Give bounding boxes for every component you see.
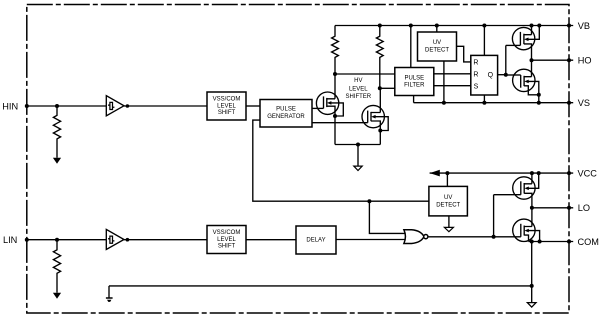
node VB pulse filter drop xyxy=(409,24,413,28)
node VB fet body xyxy=(537,24,541,28)
wire latch Q output xyxy=(498,74,506,76)
svg-text:PULSE: PULSE xyxy=(276,107,296,113)
wire HO rail xyxy=(532,59,574,61)
block pulse generator xyxy=(260,100,312,128)
wire LO rail xyxy=(532,207,573,209)
svg-text:FILTER: FILTER xyxy=(404,82,425,88)
svg-text:LEVEL: LEVEL xyxy=(217,237,236,243)
block delay xyxy=(296,226,336,254)
node LO fet junction xyxy=(530,206,534,210)
wire COM rail xyxy=(529,241,574,243)
wire pulse filter top to VB xyxy=(410,26,412,68)
svg-text:VSS/COM: VSS/COM xyxy=(213,97,241,103)
schmitt buffer LIN xyxy=(106,229,124,249)
node Q2 drain xyxy=(378,86,382,90)
ground chevron uv low xyxy=(444,227,453,231)
wire level shift to delay xyxy=(246,239,296,241)
wire schmitt LIN output to level shift xyxy=(124,239,207,241)
node VS fet source xyxy=(537,101,541,105)
wire VSS substrate run xyxy=(109,285,532,287)
node LIN resistor tap xyxy=(55,238,59,242)
wire uv detect top to VB xyxy=(436,26,438,33)
node VS latch drop xyxy=(482,101,486,105)
transistor Q2 HV level shift right xyxy=(312,88,388,144)
node HIN resistor tap xyxy=(55,104,59,108)
svg-text:SHIFT: SHIFT xyxy=(218,243,236,249)
block UV detect high side xyxy=(418,32,457,61)
svg-text:DETECT: DETECT xyxy=(436,202,460,208)
svg-text:LEVEL: LEVEL xyxy=(349,86,368,92)
wire VB rail xyxy=(335,25,573,27)
wire delay to NOR lower input xyxy=(336,239,406,241)
svg-text:VB: VB xyxy=(578,21,590,31)
gate NOR xyxy=(404,230,428,244)
node schmitt LIN output xyxy=(126,238,130,242)
node Q2 source-body xyxy=(378,129,382,133)
svg-text:GENERATOR: GENERATOR xyxy=(267,114,305,120)
wire VS rail xyxy=(414,102,574,104)
svg-text:UV: UV xyxy=(433,40,441,46)
svg-text:S: S xyxy=(474,83,479,90)
svg-text:HV: HV xyxy=(354,78,362,84)
wire ground stem xyxy=(357,145,359,167)
wire common source of level shifter xyxy=(335,144,380,146)
transistor Q3 high side output upper xyxy=(506,26,540,61)
wire latch bottom to VS xyxy=(483,95,485,103)
node substrate join xyxy=(530,284,534,288)
resistor LIN pulldown xyxy=(53,240,60,293)
svg-text:PULSE: PULSE xyxy=(404,76,424,82)
wire VCC rail xyxy=(430,172,574,174)
wire COM to substrate ground xyxy=(531,242,533,303)
node VB uv detect drop xyxy=(435,24,439,28)
arrow VCC feed xyxy=(430,170,440,177)
node VB latch drop xyxy=(482,24,486,28)
wire pulse generator lower-left port down to LIN-side logic xyxy=(253,120,429,201)
block UV detect low side xyxy=(429,186,468,216)
latch RS block xyxy=(471,55,498,95)
node schmitt HIN output xyxy=(126,104,130,108)
node HO pin xyxy=(567,58,571,62)
ground arrow HIN resistor xyxy=(53,158,61,164)
svg-text:UV: UV xyxy=(444,195,452,201)
wire pulse filter to latch S xyxy=(434,85,471,87)
wire schmitt HIN output to level shift xyxy=(124,105,207,107)
svg-text:VSS/COM: VSS/COM xyxy=(213,230,241,236)
svg-text:SHIFT: SHIFT xyxy=(218,110,236,116)
node VCC pin xyxy=(567,171,571,175)
node VB resistor right xyxy=(378,24,382,28)
block VSS/COM level shift (HIN) xyxy=(207,92,246,120)
svg-text:Q: Q xyxy=(488,72,494,79)
node HO fet junction xyxy=(530,58,534,62)
ground arrow LIN resistor xyxy=(53,293,61,299)
node Q1 source-body xyxy=(333,114,337,118)
wire gate riser Q5 xyxy=(493,195,495,237)
wire VSS ground stem xyxy=(108,286,110,298)
transistor Q4 high side output lower xyxy=(506,60,539,102)
block pulse filter xyxy=(395,68,434,96)
resistor R HV left xyxy=(332,26,339,75)
wire pulse filter left to Q1 drain xyxy=(335,73,395,75)
node Q gate tie xyxy=(504,73,508,77)
node HIN pin xyxy=(25,104,29,108)
svg-text:COM: COM xyxy=(578,237,599,247)
wire branch down to NOR upper input xyxy=(369,201,406,233)
node COM source drop xyxy=(530,240,534,244)
svg-text:VCC: VCC xyxy=(578,168,598,178)
ground VS chevron xyxy=(354,166,362,170)
node VS uv drop xyxy=(442,101,446,105)
svg-text:DELAY: DELAY xyxy=(306,238,325,244)
ground chevron COM xyxy=(527,303,536,308)
ground VSS bar xyxy=(106,298,113,302)
node Q1 drain xyxy=(333,72,337,76)
wire pulse filter bottom to VS xyxy=(413,96,415,103)
node VCC fet drain xyxy=(530,171,534,175)
node pulse gen line to NOR branch xyxy=(367,199,371,203)
wire level shift to pulse generator xyxy=(246,105,260,107)
node VCC fet body xyxy=(537,171,541,175)
wire pulse filter left to Q2 drain xyxy=(380,87,395,89)
wire gate riser Q3 Q4 xyxy=(505,45,507,75)
svg-text:R: R xyxy=(473,59,478,66)
wire uv low top to VCC xyxy=(446,173,448,186)
resistor HIN pulldown xyxy=(53,106,60,158)
svg-text:LIN: LIN xyxy=(3,235,17,245)
node LO pin xyxy=(567,206,571,210)
wire HIN input xyxy=(27,105,107,107)
node VB fet drain xyxy=(530,24,534,28)
node VS pin xyxy=(567,101,571,105)
resistor R HV right xyxy=(376,26,383,89)
node VCC uv drop xyxy=(445,171,449,175)
node level shifter ground xyxy=(356,143,360,147)
svg-text:HO: HO xyxy=(578,56,592,66)
transistor Q6 low side output lower xyxy=(494,208,540,242)
svg-text:LO: LO xyxy=(578,203,590,213)
node LIN pin xyxy=(25,238,29,242)
node VB pin xyxy=(567,24,571,28)
svg-text:HIN: HIN xyxy=(2,101,18,111)
svg-text:VS: VS xyxy=(578,98,590,108)
wire uv low ground stem xyxy=(448,216,450,228)
svg-text:DETECT: DETECT xyxy=(425,47,449,53)
transistor Q5 low side output upper xyxy=(494,173,539,208)
wire uv detect output to latch R1 xyxy=(457,46,471,62)
wire NOR output xyxy=(428,236,494,238)
wire pulse filter to latch R2 xyxy=(434,73,471,75)
svg-text:SHIFTER: SHIFTER xyxy=(345,94,371,100)
node Q4 source-body join xyxy=(537,93,541,97)
wire uv detect bottom to VS xyxy=(443,61,445,103)
node COM pin xyxy=(567,240,571,244)
label HV level shifter xyxy=(345,78,371,100)
transistor Q1 HV level shift left xyxy=(312,74,343,145)
svg-text:R: R xyxy=(473,71,478,78)
schmitt buffer HIN xyxy=(106,96,124,116)
wire latch top to VB xyxy=(483,26,485,56)
node NOR output branch xyxy=(492,235,496,239)
wire LIN input xyxy=(27,239,107,241)
block VSS/COM level shift (LIN) xyxy=(207,226,246,254)
node COM body drop xyxy=(538,240,542,244)
svg-text:LEVEL: LEVEL xyxy=(217,103,236,109)
